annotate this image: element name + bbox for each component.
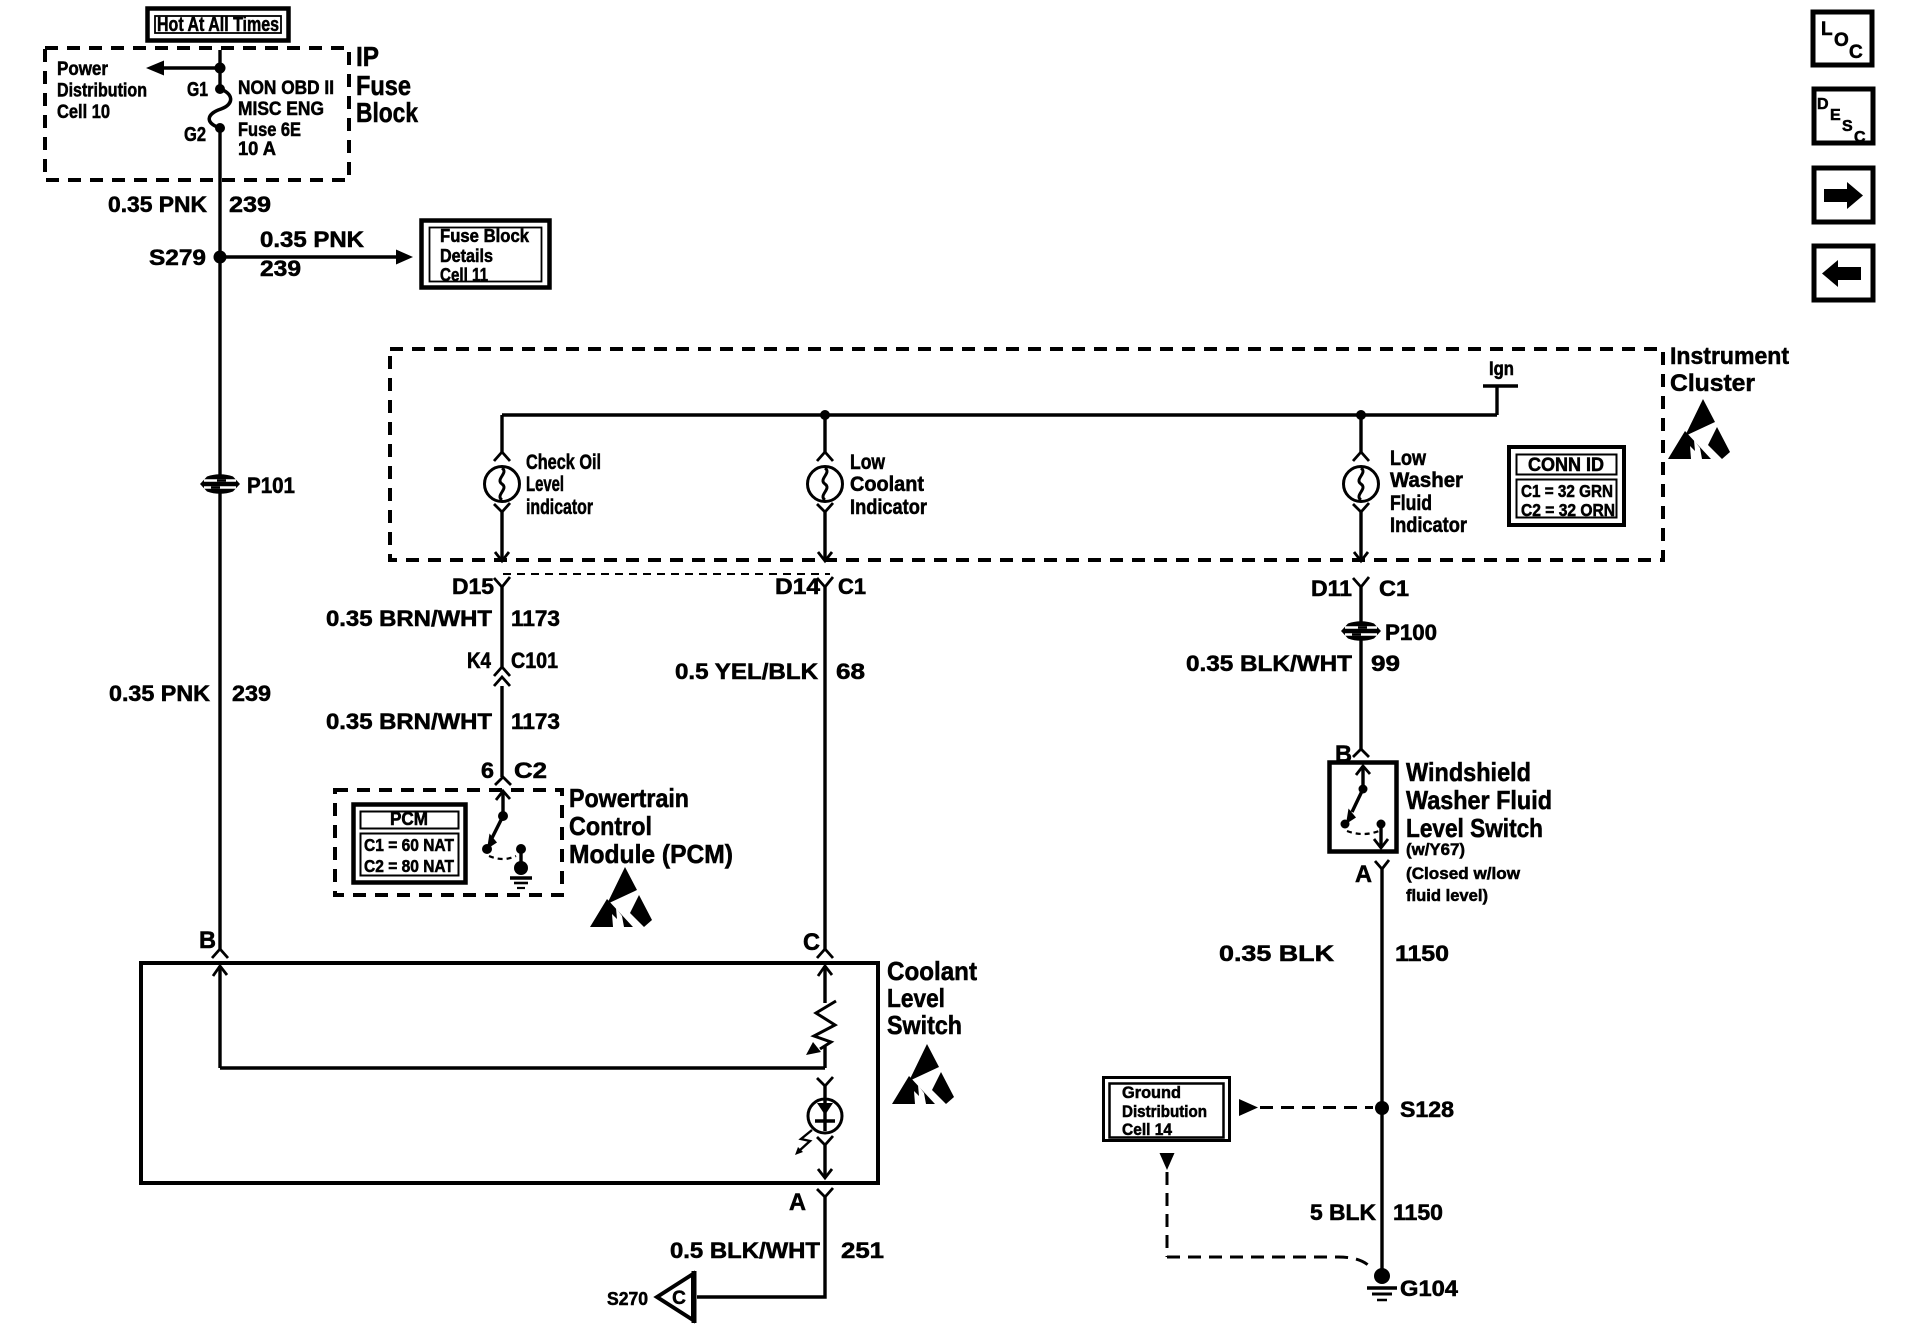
svg-text:C: C	[1849, 42, 1863, 63]
PCM dashed box	[335, 790, 562, 895]
svg-text:G1: G1	[187, 79, 208, 101]
svg-text:6: 6	[481, 758, 494, 783]
svg-text:D14: D14	[775, 574, 821, 599]
svg-text:Powertrain: Powertrain	[569, 783, 689, 813]
svg-text:0.35 BLK/WHT: 0.35 BLK/WHT	[1186, 651, 1353, 676]
wire: fuse G2 down to S279	[218, 128, 221, 257]
svg-text:C2 = 32 ORN: C2 = 32 ORN	[1521, 500, 1615, 520]
button prev arrow	[1814, 246, 1873, 300]
svg-text:0.5 YEL/BLK: 0.5 YEL/BLK	[675, 659, 818, 684]
arrowhead at cluster boundary D11	[1354, 552, 1368, 561]
connector P101	[200, 473, 295, 498]
terminal chevron below boundary at D11	[1353, 577, 1369, 587]
svg-text:0.35 PNK: 0.35 PNK	[260, 227, 364, 252]
svg-text:Fuse Block: Fuse Block	[440, 226, 530, 246]
wire: coolant A down and left to S270	[697, 1197, 825, 1297]
value 0.5 YEL/BLK 68	[675, 659, 865, 684]
svg-text:S279: S279	[149, 245, 206, 270]
Windshield Washer Fluid Level Switch box	[1330, 763, 1397, 852]
svg-text:Level Switch: Level Switch	[1406, 813, 1543, 843]
svg-text:C1 = 60 NAT: C1 = 60 NAT	[364, 835, 454, 855]
svg-text:C: C	[1854, 129, 1866, 146]
value 0.35 BRN/WHT 1173 (lower)	[326, 709, 560, 734]
wire: low washer lamp to pin D11	[1359, 512, 1362, 560]
svg-text:indicator: indicator	[526, 496, 593, 519]
value 0.35 PNK 239 (lower)	[109, 681, 271, 706]
value 0.5 BLK/WHT 251	[670, 1238, 884, 1263]
terminal chevron at PCM pin 6	[495, 777, 511, 785]
label Low Coolant Indicator	[850, 451, 927, 519]
svg-text:1150: 1150	[1395, 941, 1449, 966]
wire: battery feed into fuse	[218, 50, 221, 89]
svg-text:G2: G2	[184, 124, 206, 146]
level sensor probe symbol	[808, 1086, 842, 1133]
label Ground Distribution Cell 14 box	[1104, 1078, 1230, 1141]
svg-text:(w/Y67): (w/Y67)	[1406, 840, 1465, 859]
arrowhead at cluster boundary D14	[818, 552, 832, 561]
svg-text:C1 = 32 GRN: C1 = 32 GRN	[1521, 481, 1613, 501]
svg-text:Switch: Switch	[887, 1010, 962, 1040]
svg-text:Level: Level	[526, 473, 564, 496]
wire: coolant switch C leg with level sense resistor	[806, 966, 836, 1068]
wire: D14 down to coolant switch pin C	[823, 587, 826, 949]
svg-text:Distribution: Distribution	[1122, 1102, 1207, 1121]
svg-text:Cell 10: Cell 10	[57, 102, 110, 123]
switch inside PCM (oil level sense)	[482, 791, 526, 864]
wire: drop to low washer lamp	[1359, 415, 1362, 452]
svg-text:C1: C1	[838, 574, 866, 599]
svg-text:D11: D11	[1311, 576, 1352, 601]
svg-text:0.35 BLK: 0.35 BLK	[1219, 941, 1334, 966]
IP Fuse Block dashed box	[45, 48, 349, 180]
svg-text:251: 251	[841, 1238, 884, 1263]
button DESC	[1814, 89, 1873, 146]
svg-text:5 BLK: 5 BLK	[1310, 1200, 1376, 1225]
svg-text:1173: 1173	[511, 709, 560, 734]
svg-text:Level: Level	[887, 983, 945, 1013]
svg-text:10 A: 10 A	[238, 139, 276, 160]
svg-text:Control: Control	[569, 811, 652, 841]
wire: dashed ground ref to G104	[1160, 1153, 1372, 1268]
terminal chevron at coolant pin B	[212, 949, 228, 958]
value 0.35 BRN/WHT 1173 (upper)	[326, 606, 560, 631]
label Instrument Cluster	[1670, 343, 1789, 397]
label Low Washer Fluid Indicator	[1390, 447, 1467, 537]
svg-text:Ign: Ign	[1489, 359, 1514, 380]
svg-text:A: A	[789, 1189, 806, 1216]
ground G104	[1367, 1268, 1459, 1301]
splice S270 connector C	[607, 1271, 694, 1323]
svg-text:B: B	[199, 927, 216, 954]
svg-text:L: L	[1821, 19, 1833, 40]
svg-text:239: 239	[232, 681, 271, 706]
wire: washer A down to G104	[1380, 869, 1383, 1270]
ESD symbol (instrument cluster)	[1668, 399, 1730, 459]
svg-text:Windshield: Windshield	[1406, 757, 1531, 787]
svg-text:1173: 1173	[511, 606, 560, 631]
value 5 BLK 1150	[1310, 1200, 1443, 1225]
svg-text:C1: C1	[1379, 576, 1409, 601]
terminal chevron below check oil lamp	[494, 503, 510, 512]
node: bus junction at low washer	[1356, 410, 1366, 420]
ESD symbol (coolant switch)	[892, 1044, 954, 1104]
svg-text:PCM: PCM	[390, 809, 428, 829]
svg-text:Indicator: Indicator	[850, 496, 927, 519]
svg-text:E: E	[1830, 107, 1841, 124]
svg-text:Indicator: Indicator	[1390, 514, 1467, 537]
svg-text:0.35 BRN/WHT: 0.35 BRN/WHT	[326, 709, 493, 734]
svg-text:A: A	[1355, 861, 1372, 888]
svg-text:P101: P101	[247, 473, 295, 498]
svg-text:Distribution: Distribution	[57, 81, 147, 102]
svg-text:P100: P100	[1385, 620, 1437, 645]
Coolant Level Switch box	[141, 963, 878, 1183]
label Check Oil Level indicator	[526, 451, 601, 519]
terminal chevron at washer pin B	[1353, 749, 1369, 757]
Instrument Cluster dashed box	[390, 349, 1663, 560]
svg-text:Cell 11: Cell 11	[440, 265, 488, 285]
svg-text:NON OBD II: NON OBD II	[238, 78, 334, 99]
wire: dashed ground ref to S128	[1239, 1099, 1373, 1116]
svg-text:Washer Fluid: Washer Fluid	[1406, 785, 1552, 815]
wire: S279 arrow to Fuse Block Details	[220, 250, 413, 265]
svg-text:Instrument: Instrument	[1670, 343, 1789, 370]
terminal chevron at coolant pin C	[817, 949, 833, 958]
svg-text:Coolant: Coolant	[850, 473, 924, 496]
wire: low coolant lamp to pin D14	[823, 512, 826, 560]
value 0.35 PNK 239 (arrow label)	[260, 227, 364, 281]
fuse 6E (NON OBD II MISC ENG 10 A)	[209, 84, 230, 133]
svg-text:S270: S270	[607, 1289, 648, 1309]
value 0.35 BLK 1150	[1219, 941, 1449, 966]
svg-text:Details: Details	[440, 246, 493, 266]
svg-text:0.5 BLK/WHT: 0.5 BLK/WHT	[670, 1238, 821, 1263]
svg-text:Washer: Washer	[1390, 469, 1463, 492]
svg-text:239: 239	[260, 256, 301, 281]
svg-text:D15: D15	[452, 574, 494, 599]
svg-text:Low: Low	[1390, 447, 1427, 470]
svg-text:0.35 BRN/WHT: 0.35 BRN/WHT	[326, 606, 493, 631]
svg-text:1150: 1150	[1393, 1200, 1443, 1225]
svg-text:G104: G104	[1400, 1276, 1459, 1301]
node: junction at fuse feed	[215, 63, 226, 74]
wire: C101 down to PCM pin 6	[500, 686, 503, 777]
wire: P101 down to coolant switch pin B	[218, 493, 221, 949]
svg-text:Coolant: Coolant	[887, 956, 977, 986]
value 0.35 BLK/WHT 99	[1186, 651, 1400, 676]
node S128	[1375, 1097, 1454, 1122]
svg-text:O: O	[1834, 30, 1849, 51]
terminal chevron below level sensor	[817, 1136, 833, 1145]
lamp: Check Oil Level Indicator	[485, 467, 520, 502]
ESD symbol (PCM)	[590, 867, 652, 927]
wire: coolant switch B leg	[213, 966, 825, 1068]
label Power Distribution Cell 10	[57, 59, 147, 123]
terminal chevron above level sensor	[817, 1077, 833, 1086]
lamp: Low Coolant Indicator	[808, 467, 843, 502]
label Fuse Block Details Cell 11 box	[422, 221, 550, 288]
svg-text:K4: K4	[467, 648, 492, 673]
wire: thin dashed connector boundary D15 to D14	[503, 573, 830, 575]
svg-text:Module (PCM): Module (PCM)	[569, 839, 733, 869]
arrowhead at cluster boundary D15	[495, 552, 509, 561]
svg-text:C2 = 80 NAT: C2 = 80 NAT	[364, 856, 454, 876]
svg-text:IP: IP	[356, 41, 379, 72]
svg-text:Fuse 6E: Fuse 6E	[238, 120, 301, 141]
node: bus junction at low coolant	[820, 410, 830, 420]
svg-text:MISC ENG: MISC ENG	[238, 99, 324, 120]
svg-text:Cluster: Cluster	[1670, 370, 1755, 397]
terminal chevron above low coolant lamp	[817, 452, 833, 461]
svg-text:Low: Low	[850, 451, 886, 474]
terminal chevron below low washer lamp	[1353, 503, 1369, 512]
label fuse text	[238, 78, 334, 160]
svg-text:C: C	[803, 929, 820, 956]
svg-text:Fluid: Fluid	[1390, 492, 1432, 515]
label CONN ID table	[1509, 447, 1624, 525]
svg-text:fluid level): fluid level)	[1406, 886, 1488, 905]
svg-text:S128: S128	[1400, 1097, 1454, 1122]
wire: ignition feed bus	[502, 413, 1497, 416]
lamp: Low Washer Fluid Indicator	[1344, 467, 1379, 502]
svg-text:99: 99	[1371, 651, 1400, 676]
svg-text:(Closed w/low: (Closed w/low	[1406, 864, 1521, 883]
wire: D11 down to P100	[1359, 587, 1362, 622]
label Coolant Level Switch	[887, 956, 977, 1040]
svg-text:Power: Power	[57, 59, 109, 80]
svg-text:Hot At All Times: Hot At All Times	[157, 14, 279, 36]
wire: S279 down to P101	[218, 257, 221, 475]
value 0.35 PNK 239 (upper)	[108, 192, 271, 217]
svg-text:CONN ID: CONN ID	[1528, 455, 1604, 476]
svg-text:C101: C101	[511, 648, 558, 673]
label Powertrain Control Module (PCM)	[569, 783, 733, 869]
terminal chevron below low coolant lamp	[817, 503, 833, 512]
node S279	[149, 245, 227, 270]
svg-text:239: 239	[229, 192, 271, 217]
terminal chevron below boundary at D14	[817, 577, 833, 587]
lightning mark at level sensor	[795, 1130, 812, 1155]
wire: sensor to coolant pin A	[818, 1145, 832, 1178]
terminal chevron above low washer lamp	[1353, 452, 1369, 461]
button next arrow	[1814, 168, 1873, 222]
svg-text:0.35 PNK: 0.35 PNK	[108, 192, 207, 217]
svg-text:Ground: Ground	[1122, 1083, 1181, 1102]
terminal chevron below washer pin A	[1375, 860, 1389, 869]
label PCM connector table	[354, 805, 466, 883]
wire: P100 down to washer switch pin B	[1359, 640, 1362, 749]
label IP Fuse Block	[356, 41, 418, 128]
svg-text:C2: C2	[514, 758, 547, 783]
svg-text:Check Oil: Check Oil	[526, 451, 601, 474]
wire: drop to low coolant lamp	[823, 415, 826, 452]
node Ign	[1483, 359, 1518, 415]
label Windshield Washer Fluid Level Switch	[1406, 757, 1552, 905]
terminal chevron below coolant pin A	[817, 1188, 833, 1197]
label "Hot At All Times" box	[148, 9, 289, 41]
button LOC	[1813, 12, 1872, 65]
wire: check oil lamp to pin D15	[500, 512, 503, 560]
switch inside washer box	[1341, 766, 1389, 848]
wire: D15 down to C101	[500, 587, 503, 667]
ground symbol inside PCM	[510, 861, 532, 888]
connector C101 double chevron	[494, 667, 510, 686]
wire: drop to check oil lamp	[500, 415, 503, 452]
terminal chevron below boundary at D15	[494, 577, 510, 587]
svg-text:S: S	[1842, 118, 1853, 135]
svg-text:Cell 14: Cell 14	[1122, 1120, 1172, 1139]
terminal chevron above check oil lamp	[494, 452, 510, 461]
svg-text:0.35 PNK: 0.35 PNK	[109, 681, 210, 706]
svg-text:C: C	[672, 1288, 686, 1309]
svg-text:68: 68	[836, 659, 865, 684]
svg-text:D: D	[1817, 96, 1829, 113]
svg-text:Block: Block	[356, 97, 418, 128]
wire: arrow to Power Distribution	[146, 61, 220, 76]
connector P100	[1341, 620, 1437, 645]
